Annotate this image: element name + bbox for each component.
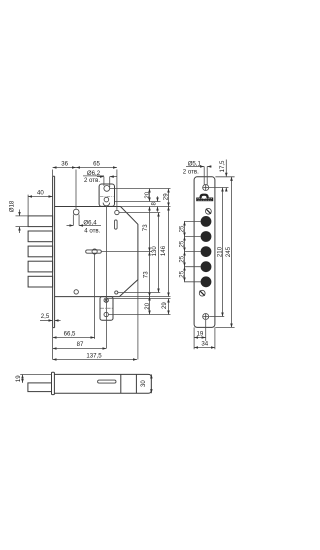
upper escutcheon hole Ø6,2 xyxy=(104,186,110,192)
dim 25 x4 xyxy=(178,222,185,282)
svg-text:245: 245 xyxy=(225,246,232,257)
dim 19 xyxy=(15,375,22,383)
dim 130 xyxy=(151,213,158,293)
svg-text:210: 210 xyxy=(216,246,223,257)
dim 65 xyxy=(76,160,117,167)
bolt 5 xyxy=(28,276,52,287)
svg-text:146: 146 xyxy=(160,245,167,256)
bolt circle 3 xyxy=(201,246,212,257)
logo xyxy=(200,194,209,198)
upper escutcheon centerline xyxy=(100,196,114,198)
slot xyxy=(98,380,116,383)
bolt circle 5 xyxy=(201,276,212,287)
bolt 1 xyxy=(28,216,52,227)
svg-text:29: 29 xyxy=(163,193,170,200)
dim 245 xyxy=(225,177,232,328)
svg-text:65: 65 xyxy=(93,160,100,167)
faceplate xyxy=(194,177,215,328)
cylinder axis extension xyxy=(105,205,107,348)
svg-text:Ø18: Ø18 xyxy=(9,200,16,212)
hole bottom-left xyxy=(74,290,78,294)
dim Ø6,2 2 отв. xyxy=(83,170,117,187)
lock body outline xyxy=(55,207,138,297)
keyhole slot xyxy=(86,250,102,253)
lower escutcheon top hole xyxy=(104,298,108,302)
dim 8 xyxy=(151,196,158,211)
25-chain ticks xyxy=(184,221,201,281)
vertical slot xyxy=(115,220,118,229)
svg-text:25: 25 xyxy=(178,270,185,277)
dim 66,5 xyxy=(53,330,95,337)
dim 19 (right view) xyxy=(194,320,206,349)
bolt circle 1 xyxy=(201,216,212,227)
bolt 2 xyxy=(28,231,52,242)
dim 73 upper xyxy=(142,207,150,252)
svg-text:29: 29 xyxy=(161,302,168,309)
dim 29 bottom xyxy=(161,299,168,315)
svg-text:130: 130 xyxy=(151,246,158,257)
svg-text:137,5: 137,5 xyxy=(86,352,102,359)
lower escutcheon centerline xyxy=(101,307,113,309)
hole bottom-right xyxy=(115,291,118,294)
svg-text:30: 30 xyxy=(140,380,147,387)
dim 73 lower xyxy=(143,252,150,297)
slash circle bottom xyxy=(199,290,205,296)
ext top xyxy=(20,374,51,376)
dim Ø18 xyxy=(9,200,29,233)
slash circle top xyxy=(206,208,212,214)
dim 29 top xyxy=(163,189,170,207)
svg-text:2 отв.: 2 отв. xyxy=(183,168,199,175)
lower escutcheon bottom hole xyxy=(104,312,108,316)
svg-text:4 отв.: 4 отв. xyxy=(84,227,100,234)
svg-text:73: 73 xyxy=(142,224,149,231)
dim Ø6,4 4 отв. xyxy=(67,215,102,235)
dim 87 xyxy=(53,341,107,348)
svg-text:25: 25 xyxy=(178,225,185,232)
dim 36 xyxy=(53,160,117,210)
svg-text:19: 19 xyxy=(15,375,22,382)
dim 20 top xyxy=(144,189,151,202)
internal line 1 xyxy=(120,374,122,393)
bottom screw hole xyxy=(203,314,209,320)
svg-text:20: 20 xyxy=(144,302,151,309)
dim 30 xyxy=(140,374,151,393)
hole top-right xyxy=(115,210,119,214)
dim Ø5,1 2 отв. xyxy=(183,160,212,185)
bolt circle 2 xyxy=(201,231,212,242)
body xyxy=(54,374,151,393)
svg-text:2 отв.: 2 отв. xyxy=(84,177,100,184)
hole top-left Ø6,4 xyxy=(73,209,79,215)
svg-text:20: 20 xyxy=(144,191,151,198)
svg-text:34: 34 xyxy=(201,340,208,347)
top screw hole xyxy=(203,185,209,191)
bolt circle 4 xyxy=(201,261,212,272)
svg-text:17,5: 17,5 xyxy=(219,160,226,172)
body right edge extension down xyxy=(137,280,139,360)
svg-text:19: 19 xyxy=(197,330,204,337)
keyhole circle xyxy=(92,249,97,254)
bolt xyxy=(28,383,52,392)
svg-text:73: 73 xyxy=(143,271,150,278)
bolt 4 xyxy=(28,261,52,272)
svg-text:25: 25 xyxy=(178,240,185,247)
keyhole axis extension xyxy=(94,253,96,339)
dim 34 xyxy=(194,327,215,349)
dim 146 xyxy=(160,207,169,297)
dim 2,5 xyxy=(40,313,61,321)
svg-text:40: 40 xyxy=(37,190,44,197)
upper escutcheon plate xyxy=(99,184,114,206)
svg-text:25: 25 xyxy=(178,255,185,262)
dim 20 bottom xyxy=(144,297,151,315)
svg-text:66,5: 66,5 xyxy=(64,330,76,337)
internal line 2 xyxy=(135,374,137,393)
svg-text:2,5: 2,5 xyxy=(41,313,50,320)
right side extension lines xyxy=(110,188,171,190)
dim 137,5 xyxy=(53,328,137,360)
faceplate edge-on xyxy=(53,176,55,327)
faceplate strip xyxy=(52,372,55,394)
dim 40 xyxy=(28,190,52,216)
ext lines right view xyxy=(209,187,229,189)
svg-text:87: 87 xyxy=(77,341,84,348)
bolt 3 xyxy=(28,246,52,257)
dim 210 xyxy=(216,188,223,317)
lower escutcheon plate xyxy=(100,297,113,321)
dim 17,5 xyxy=(219,160,226,192)
upper escutcheon cylinder circle xyxy=(104,197,109,202)
svg-text:36: 36 xyxy=(61,160,68,167)
